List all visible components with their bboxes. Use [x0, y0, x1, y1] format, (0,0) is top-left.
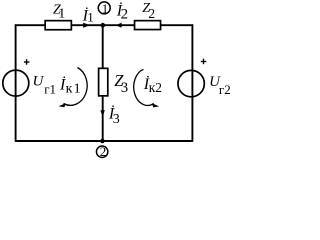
- resistor Z1: [45, 21, 71, 30]
- resistor Z2: [135, 21, 161, 30]
- svg-text:2: 2: [100, 144, 107, 159]
- svg-text:1: 1: [58, 7, 65, 22]
- wire bottom: [16, 140, 193, 142]
- loop arc Ik1: [64, 68, 88, 106]
- arrow I3: [100, 110, 104, 117]
- svg-text:к1: к1: [66, 81, 82, 96]
- arrow I2: [116, 23, 122, 28]
- wire middle: [102, 25, 104, 141]
- svg-text:3: 3: [121, 80, 128, 96]
- svg-text:2: 2: [121, 7, 129, 23]
- svg-text:3: 3: [113, 112, 120, 127]
- arrow I1: [83, 23, 90, 28]
- node 2 circle: [96, 146, 107, 157]
- wire left: [15, 24, 17, 142]
- node 1 junction dot: [101, 23, 106, 28]
- svg-text:г2: г2: [219, 82, 231, 97]
- loop arrow Ik2 head: [152, 103, 159, 107]
- node 2 junction dot: [100, 139, 105, 144]
- plus sign left: [24, 59, 30, 64]
- source U_g2 circle: [178, 70, 204, 96]
- plus sign right: [201, 59, 207, 64]
- svg-text:1: 1: [102, 1, 109, 16]
- loop arc Ik2: [134, 69, 154, 105]
- svg-text:к2: к2: [149, 80, 162, 95]
- svg-text:2: 2: [148, 6, 155, 21]
- svg-text:г1: г1: [44, 82, 56, 97]
- svg-text:1: 1: [87, 9, 94, 24]
- node 1 circle: [98, 2, 110, 14]
- wire top: [16, 24, 193, 26]
- loop arrow Ik1 head: [59, 103, 66, 107]
- resistor Z3: [99, 68, 108, 96]
- wire right: [191, 24, 193, 142]
- source U_g1 circle: [3, 70, 29, 96]
- svg-text:U: U: [33, 73, 45, 89]
